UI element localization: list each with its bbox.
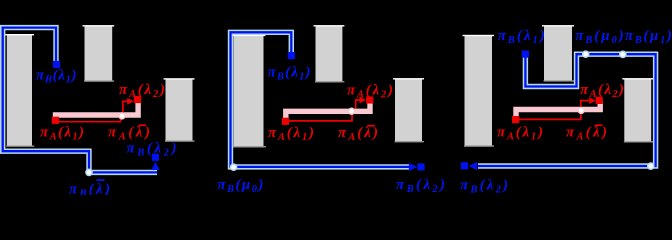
red square pi_A(lambda_1) panel 1 [52,117,59,124]
bar over lambda panel 1 mid [139,124,146,126]
gray bar A panel 1 [5,34,35,147]
thin red arrow line panel 1 [123,101,128,113]
red square pi_A(lambda_2) panel 1 [134,96,141,103]
blue node pi_B(lambda-bar) panel 1 [86,169,92,175]
thin red line with arrow panel 3 [519,101,589,120]
gray bar A panel 2 [232,35,267,148]
blue node pi_B(mu_1) panel 3 [620,51,626,57]
blue arrowhead right panel 2 [409,163,418,171]
blue square pi_B(lambda_1) panel 1 [53,61,60,68]
thin red line panel 2 [289,115,353,121]
red arrowhead panel 3 [589,97,595,104]
gray bar B panel 2 [314,25,345,82]
red square pi_A(lambda_2) panel 2 [366,96,373,103]
blue square pi_B(lambda_2) panel 1 [152,154,159,161]
red node pi_A(lambda-bar) panel 3 [578,107,584,113]
blue node corner panel 3 [648,163,654,169]
blue square pi_B(lambda_1) panel 3 [522,51,529,58]
red square pi_A(lambda_1) panel 2 [282,118,289,125]
red square pi_A(lambda_2) panel 3 [596,97,603,104]
gray bar C panel 2 [393,78,424,142]
gray bar C panel 3 [622,78,653,142]
thin red arrow line panel 2 [356,100,360,109]
bar over lambda panel 2 mid [367,125,374,127]
red arrowhead panel 2 [360,97,366,104]
blue arrowhead left panel 3 [469,162,478,170]
pink tube panel 3 [516,102,600,118]
red node pi_A(lambda-bar) panel 2 [349,108,355,114]
gray bar C panel 1 [164,78,195,142]
pink tube panel 2 [286,102,370,119]
blue path panel 2 [231,32,410,167]
pink tube panel 1 [56,101,139,120]
gray bar B panel 3 [542,25,574,82]
blue path panel 1 [3,28,157,173]
bar over lambda panel 1 bottom [97,179,105,181]
blue arrowhead up panel 1 [151,162,159,170]
red arrowhead panel 1 [127,98,133,105]
red square pi_A(lambda_1) panel 3 [512,116,519,123]
blue square pi_B(lambda_1) panel 2 [288,52,295,59]
blue node pi_B(mu_0) panel 3 [583,51,589,57]
blue node pi_B(mu_0) panel 2 [231,164,237,170]
gray bar A panel 3 [463,35,495,147]
red node pi_A(lambda-bar) panel 1 [119,113,125,119]
thin red line panel 1 [57,117,121,122]
blue path panel 3 [478,54,656,166]
bar over lambda panel 3 mid [595,124,602,126]
gray bar B panel 1 [83,25,115,82]
blue square pi_B(lambda_2) panel 3 [461,162,468,169]
blue square pi_B(lambda_2) panel 2 [417,163,424,170]
